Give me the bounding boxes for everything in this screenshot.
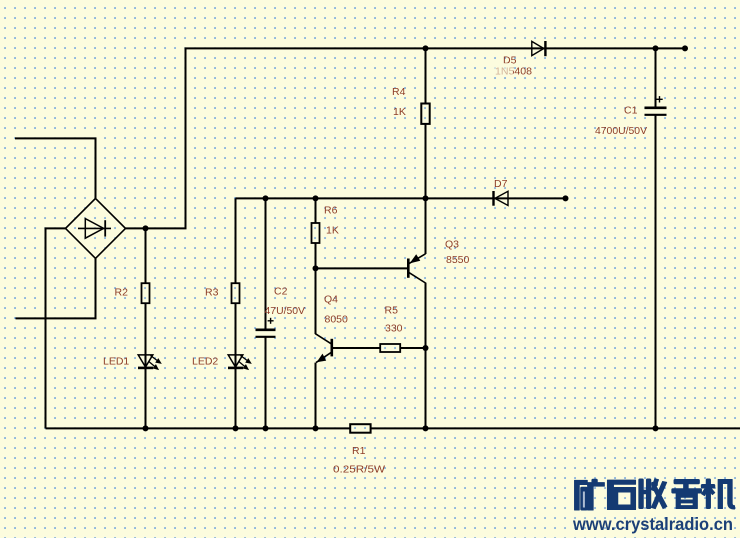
bridge inner diode bbox=[78, 219, 111, 239]
svg-text:330: 330 bbox=[385, 323, 403, 335]
node junction top rail R4 bbox=[423, 45, 429, 51]
wire Q3 emitter to bus bbox=[425, 198, 427, 254]
watermark logo text bbox=[575, 479, 735, 510]
node junction LED2 bottom rail bbox=[233, 425, 239, 431]
wire R5 to Q3 collector line bbox=[400, 347, 425, 349]
node junction R6 Q3 base Q4 collector bbox=[313, 265, 319, 271]
svg-text:R1: R1 bbox=[352, 445, 366, 457]
label Q4 value bbox=[325, 314, 349, 326]
wire bottom rail left segment bbox=[46, 427, 351, 429]
svg-text:www.crystalradio.cn: www.crystalradio.cn bbox=[572, 514, 733, 534]
resistor R2 bbox=[142, 283, 150, 303]
transistor Q3 bbox=[408, 254, 425, 283]
wire Q3 base bbox=[316, 267, 408, 269]
svg-text:R5: R5 bbox=[385, 305, 399, 317]
label R5 bbox=[385, 305, 399, 317]
svg-text:47U/50V: 47U/50V bbox=[265, 305, 306, 317]
wire bridge right vertex to top rail bbox=[126, 48, 686, 228]
node junction C1 bottom rail bbox=[653, 425, 659, 431]
label D5 value bbox=[495, 66, 532, 78]
label R4 value bbox=[393, 106, 406, 118]
svg-text:R3: R3 bbox=[205, 287, 219, 299]
char yin bbox=[674, 480, 699, 484]
wire R3 branch from bus bbox=[235, 198, 237, 428]
svg-text:4700U/50V: 4700U/50V bbox=[595, 125, 647, 137]
label C2 bbox=[274, 286, 288, 298]
label C1 value bbox=[595, 125, 647, 137]
wire C2 branch bbox=[265, 198, 267, 428]
svg-text:LED1: LED1 bbox=[103, 356, 129, 368]
C2 plus sign bbox=[268, 318, 274, 324]
label C2 value bbox=[265, 305, 306, 317]
node junction bus R6 bbox=[313, 195, 319, 201]
svg-text:LED2: LED2 bbox=[192, 356, 218, 368]
transistor Q4 bbox=[315, 334, 332, 363]
svg-text:R4: R4 bbox=[392, 86, 406, 98]
wire Q3 collector down bbox=[425, 283, 427, 429]
node junction C2 bottom rail bbox=[263, 425, 269, 431]
capacitor C2 bbox=[256, 330, 276, 337]
wire Q4 emitter down to rail bbox=[315, 363, 317, 429]
wire Q4 base to R5 bbox=[333, 347, 380, 349]
wire R2 branch bbox=[145, 228, 147, 428]
node endpoint top rail right bbox=[682, 45, 688, 51]
node junction Q4 emitter rail bbox=[313, 425, 319, 431]
wire main bus y198 bbox=[236, 197, 566, 199]
watermark url text bbox=[572, 514, 733, 534]
label Q4 bbox=[324, 294, 338, 306]
bridge rectifier diamond bbox=[66, 198, 126, 258]
label R1 bbox=[352, 445, 366, 457]
svg-text:8550: 8550 bbox=[446, 254, 470, 266]
wire bottom rail right segment bbox=[371, 427, 740, 429]
node junction bus R4 Q3 bbox=[423, 195, 429, 201]
label LED1 bbox=[103, 356, 129, 368]
label R4 bbox=[392, 86, 406, 98]
label R2 bbox=[115, 287, 129, 299]
char shou bbox=[639, 479, 644, 509]
svg-text:1K: 1K bbox=[326, 225, 339, 237]
char kuang bbox=[575, 480, 588, 510]
diode D5 bbox=[532, 41, 546, 56]
node junction Q3 collector rail bbox=[423, 425, 429, 431]
wire AC input top stub bbox=[15, 138, 96, 198]
wire R4 branch bbox=[425, 48, 427, 198]
LED LED1 bbox=[138, 355, 162, 370]
wire bridge left vertex to ground rail bbox=[46, 228, 66, 428]
resistor R3 bbox=[232, 283, 240, 303]
svg-text:R6: R6 bbox=[324, 205, 338, 217]
svg-text:1K: 1K bbox=[393, 106, 406, 118]
wire C1 branch bbox=[655, 48, 657, 428]
node junction bus C2 bbox=[263, 195, 269, 201]
label LED2 bbox=[192, 356, 218, 368]
capacitor C1 bbox=[645, 108, 667, 115]
label R1 value bbox=[333, 464, 385, 476]
node endpoint bus right bbox=[563, 195, 569, 201]
resistor R1 bbox=[350, 424, 370, 433]
svg-text:D7: D7 bbox=[494, 178, 508, 190]
node junction at R2 top bbox=[143, 225, 149, 231]
node junction R5 Q3 collector bbox=[423, 345, 429, 351]
svg-text:C2: C2 bbox=[274, 286, 288, 298]
node junction LED1 bottom rail bbox=[143, 425, 149, 431]
label R3 bbox=[205, 287, 219, 299]
label Q3 bbox=[445, 239, 459, 251]
label R5 value bbox=[385, 323, 403, 335]
label C1 bbox=[624, 105, 638, 117]
svg-text:0.25R/5W: 0.25R/5W bbox=[333, 464, 385, 476]
label R6 value bbox=[326, 225, 339, 237]
watermark blob over 1N5 bbox=[494, 63, 513, 77]
svg-text:8050: 8050 bbox=[325, 314, 349, 326]
label R6 bbox=[324, 205, 338, 217]
wire Q4 collector from junction bbox=[315, 268, 317, 334]
label Q3 value bbox=[446, 254, 470, 266]
char ji bbox=[701, 484, 715, 488]
C1 plus sign bbox=[656, 96, 662, 102]
LED LED2 bbox=[228, 355, 252, 370]
svg-text:Q4: Q4 bbox=[324, 294, 338, 306]
diode D7 bbox=[494, 191, 509, 206]
wire R6 branch bbox=[315, 198, 317, 268]
svg-text:C1: C1 bbox=[624, 105, 638, 117]
svg-text:R2: R2 bbox=[115, 287, 129, 299]
char shi bbox=[607, 480, 635, 510]
resistor R5 bbox=[380, 344, 400, 352]
resistor R6 bbox=[312, 223, 320, 243]
node junction top rail C1 bbox=[653, 45, 659, 51]
wire AC input bottom stub bbox=[16, 258, 96, 318]
label D7 bbox=[494, 178, 508, 190]
label D5 bbox=[503, 55, 517, 67]
resistor R4 bbox=[421, 104, 429, 124]
svg-text:Q3: Q3 bbox=[445, 239, 459, 251]
